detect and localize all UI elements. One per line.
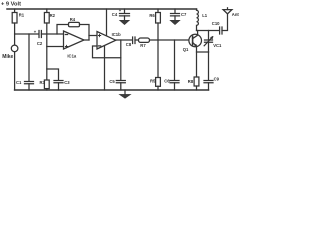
svg-text:R1: R1: [19, 13, 25, 18]
capacitor C5: [116, 81, 125, 83]
svg-text:C6: C6: [164, 79, 170, 84]
capacitor C3: [54, 81, 63, 83]
wire C3 to ground rail: [58, 83, 60, 90]
wire C8 to R7: [135, 39, 139, 41]
wire bottom ground rail: [15, 89, 209, 91]
wire R6 to base node: [157, 23, 159, 40]
wire C5 column from output node: [120, 58, 122, 81]
wire C4 to ground: [124, 16, 126, 20]
wire C1 drop from mike node: [28, 34, 30, 81]
resistor R6: [156, 13, 161, 24]
svg-text:R7: R7: [140, 43, 146, 48]
wire C3 branch from bias column: [47, 69, 59, 80]
op-amp IC1a: [64, 31, 85, 49]
label IC1a minus input: [65, 34, 67, 36]
wire feedback tap at inverting input: [57, 25, 69, 35]
wire C6 drop from base wire: [174, 40, 176, 80]
wire IC1b feedback loop: [93, 40, 121, 58]
svg-text:C7: C7: [181, 12, 187, 17]
ground symbol on bottom rail: [124, 90, 126, 94]
svg-text:IC1b: IC1b: [112, 32, 122, 37]
wire R2 drop from rail: [46, 9, 48, 13]
ground for C7: [170, 20, 180, 24]
wire emitter down: [196, 46, 198, 77]
wire R7 to base of Q1: [150, 39, 189, 41]
resistor R2: [44, 13, 49, 24]
transistor Q1: [189, 34, 202, 47]
svg-text:C2: C2: [37, 41, 43, 46]
antenna Ant: [223, 10, 232, 14]
wire VC1/C9 column: [208, 52, 210, 80]
wire R5 to ground rail: [157, 86, 159, 90]
resistor R8: [194, 77, 199, 86]
wire collector tank node: [197, 30, 220, 32]
ground for C4: [120, 20, 130, 24]
wire R2/R3 bias column: [46, 23, 48, 80]
capacitor C8 (series coupling): [133, 37, 135, 44]
capacitor C4 (electrolytic decoupling): [120, 14, 130, 16]
wire IC1b output: [116, 39, 133, 41]
wire collector drop: [197, 31, 199, 35]
wire C7 to ground: [174, 16, 176, 20]
capacitor C2 (electrolytic, series): [39, 31, 41, 38]
svg-text:R3: R3: [40, 80, 46, 85]
svg-text:R2: R2: [50, 13, 56, 18]
wire R1 to mike node: [14, 23, 16, 34]
svg-text:+ 9 Volt: + 9 Volt: [1, 2, 21, 8]
wire VC1 drop: [208, 31, 210, 40]
wire C2 to inverting input of IC1a: [41, 33, 63, 35]
svg-text:C9: C9: [214, 77, 220, 82]
svg-text:R6: R6: [149, 13, 155, 18]
inductor L1 from rail: [197, 9, 199, 31]
svg-text:C4: C4: [112, 12, 118, 17]
resistor R7: [139, 38, 150, 42]
wire mike bottom to ground rail: [14, 52, 16, 90]
svg-text:R4: R4: [70, 17, 76, 22]
svg-text:VC1: VC1: [213, 43, 222, 48]
resistor R3: [44, 80, 49, 89]
wire R8 to ground rail: [196, 86, 198, 90]
wire C4 drop from rail: [124, 9, 126, 13]
svg-text:C10: C10: [212, 21, 220, 26]
svg-text:C5: C5: [109, 79, 115, 84]
wire C10 to antenna: [222, 14, 228, 31]
wire mike top lead: [14, 34, 16, 45]
svg-text:C3: C3: [64, 80, 70, 85]
wire C1 to ground rail: [28, 84, 30, 90]
capacitor C1: [25, 82, 34, 84]
wire bias node to noninverting input of IC1a: [47, 46, 64, 48]
wire C9 to ground rail: [208, 83, 210, 90]
svg-text:L1: L1: [202, 13, 208, 18]
svg-text:Ant: Ant: [232, 12, 240, 17]
wire R5 column from base node: [157, 40, 159, 78]
svg-text:Mike: Mike: [2, 54, 13, 60]
wire C7 drop from rail: [174, 9, 176, 13]
svg-text:Q1: Q1: [183, 47, 189, 52]
wire R4 to output node: [80, 25, 90, 41]
resistor R1: [12, 13, 17, 24]
svg-text:R5: R5: [150, 79, 156, 84]
wire IC1a output: [84, 39, 89, 41]
wire C5 to ground rail: [120, 83, 122, 90]
capacitor C10 (antenna coupling): [220, 27, 222, 34]
wire IC1a output to IC1b noninverting input: [89, 35, 97, 37]
wire VC1 to emitter link: [208, 42, 210, 52]
wire R1 drop from rail: [14, 9, 16, 13]
svg-text:R8: R8: [188, 79, 194, 84]
wire mike node horizontal: [15, 33, 39, 35]
wire top supply rail: [7, 8, 197, 10]
wire R3 to ground rail: [46, 89, 48, 90]
wire IC1b V- pin to ground rail: [104, 46, 106, 90]
microphone Mike: [11, 45, 18, 52]
op-amp IC1b: [97, 32, 116, 50]
wire C6 to ground rail: [174, 83, 176, 90]
svg-text:IC1a: IC1a: [67, 53, 77, 58]
capacitor C9: [204, 81, 213, 83]
svg-text:C8: C8: [126, 42, 132, 47]
wire R6 drop from rail: [157, 9, 159, 13]
capacitor C6: [170, 81, 179, 83]
wire emitter to VC1 bottom link: [197, 51, 209, 53]
wire IC1b V+ pin from rail: [106, 9, 108, 35]
resistor R4: [69, 22, 80, 26]
resistor R5: [156, 78, 161, 87]
variable capacitor VC1: [205, 40, 213, 42]
label IC1b minus input: [98, 45, 100, 47]
capacitor C7: [171, 14, 180, 16]
label IC1a plus input: [65, 45, 67, 47]
svg-text:C1: C1: [16, 80, 22, 85]
label IC1b plus input: [98, 34, 100, 36]
